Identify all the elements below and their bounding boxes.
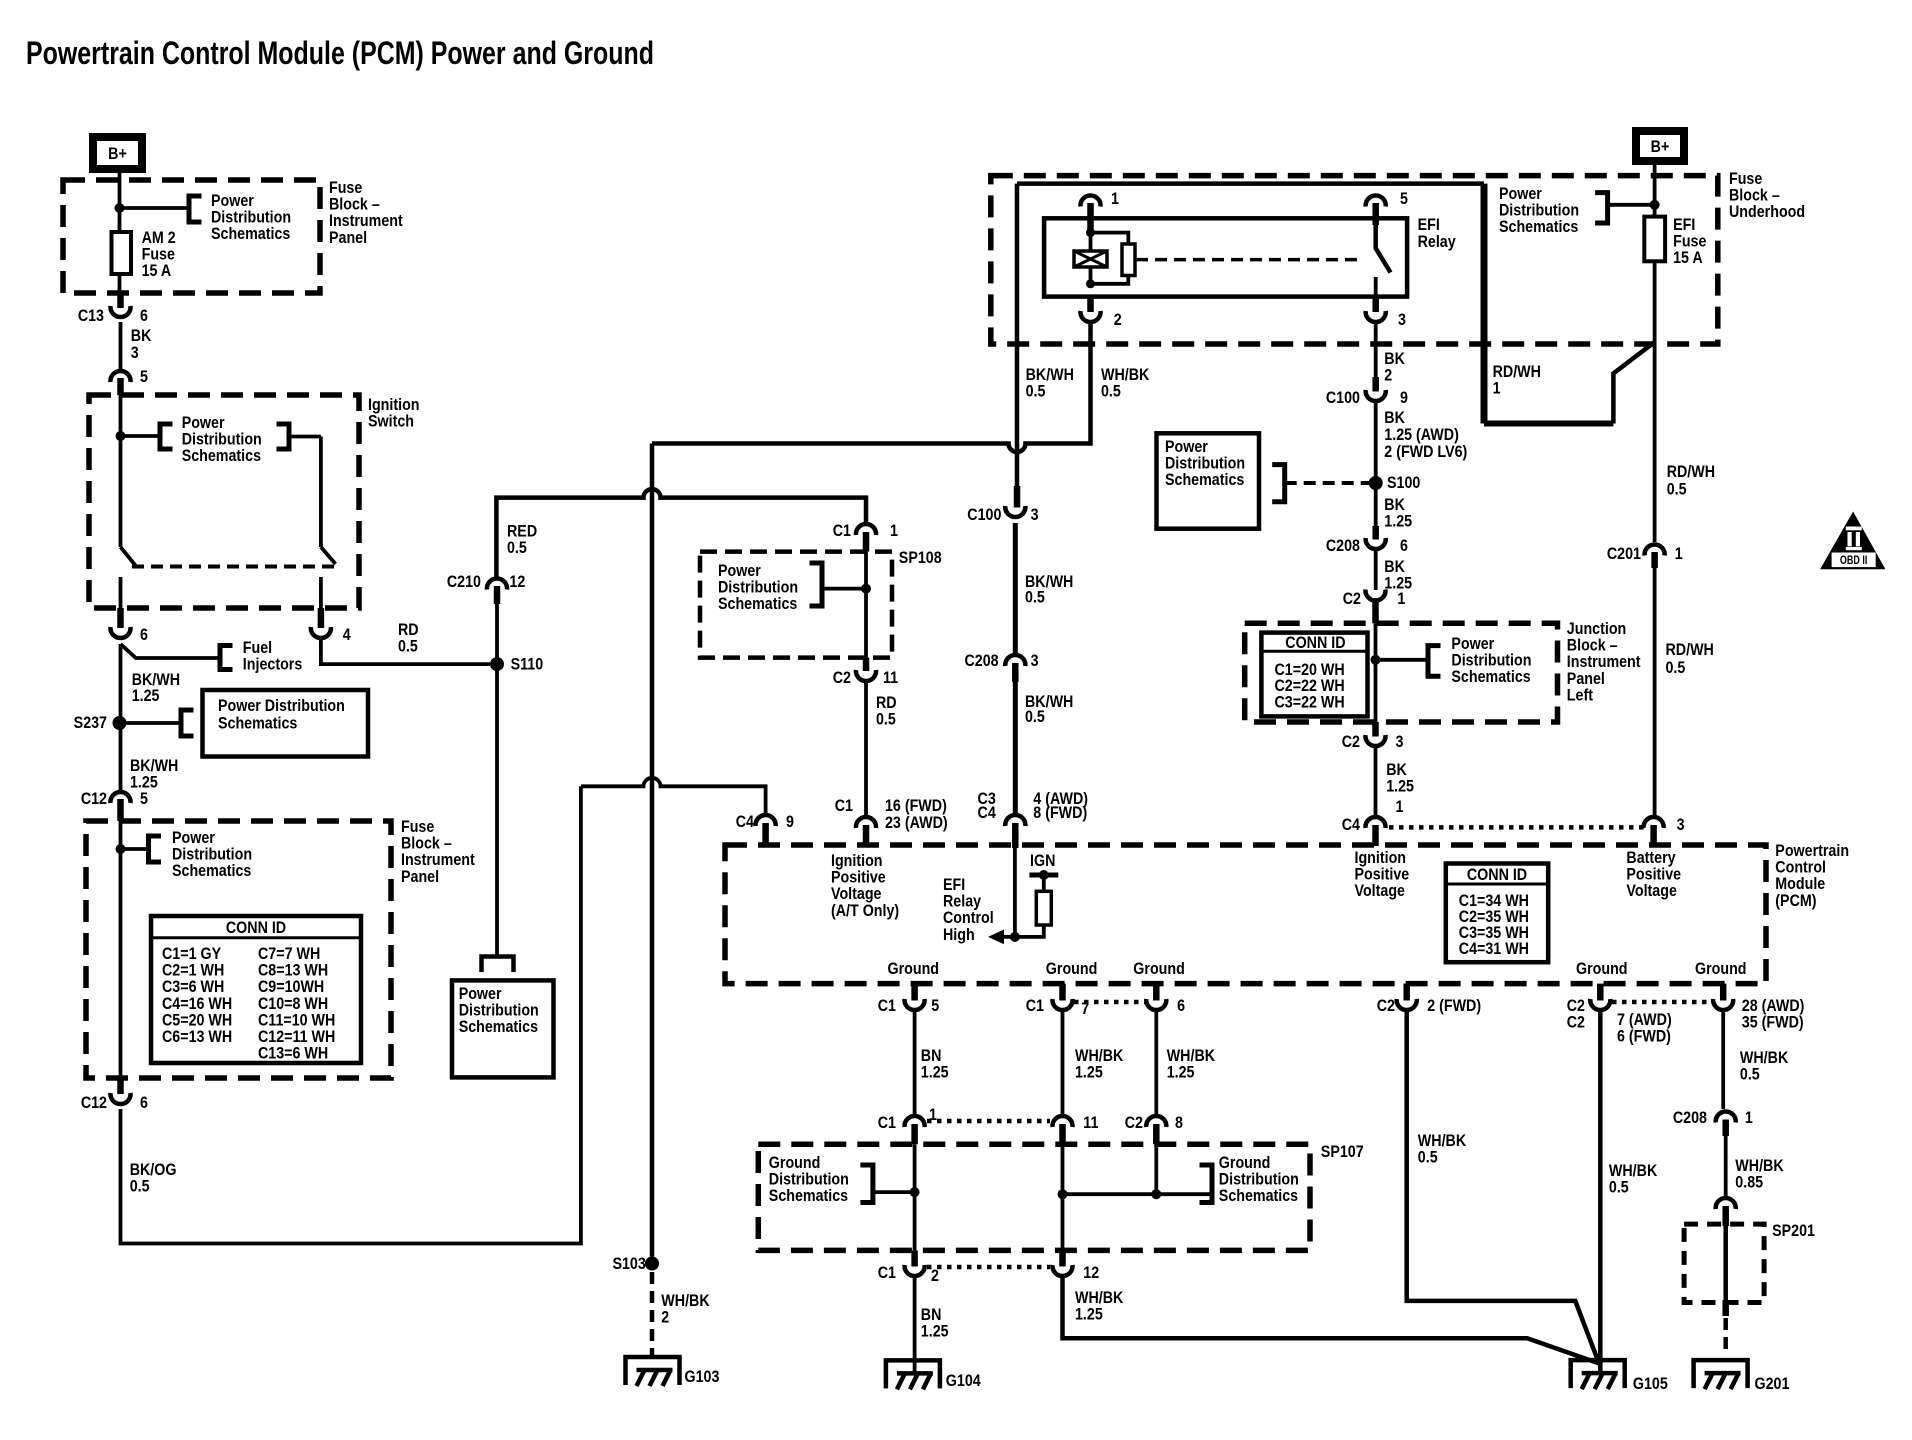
svg-text:0.5: 0.5 [507, 539, 527, 557]
svg-text:S237: S237 [74, 714, 108, 732]
svg-text:11: 11 [1083, 1114, 1098, 1132]
svg-text:0.5: 0.5 [398, 638, 418, 656]
svg-text:C13=6 WH: C13=6 WH [258, 1045, 328, 1063]
svg-text:0.5: 0.5 [1418, 1148, 1438, 1166]
svg-text:8 (FWD): 8 (FWD) [1033, 804, 1087, 822]
svg-text:C2: C2 [1567, 1013, 1585, 1031]
svg-text:5: 5 [931, 997, 939, 1015]
svg-text:Schematics: Schematics [769, 1187, 849, 1205]
svg-text:C208: C208 [1326, 537, 1360, 555]
svg-text:Schematics: Schematics [1219, 1187, 1299, 1205]
svg-text:Voltage: Voltage [1626, 882, 1677, 900]
svg-text:RD: RD [398, 621, 419, 639]
svg-text:3: 3 [1398, 311, 1406, 329]
svg-text:1.25: 1.25 [921, 1322, 949, 1340]
svg-text:C1: C1 [878, 997, 896, 1015]
svg-text:9: 9 [1400, 389, 1408, 407]
svg-text:SP107: SP107 [1321, 1143, 1364, 1161]
svg-text:5: 5 [140, 368, 148, 386]
svg-text:B+: B+ [108, 145, 127, 163]
svg-text:CONN ID: CONN ID [1467, 866, 1527, 884]
svg-text:Schematics: Schematics [1165, 471, 1245, 489]
svg-text:C4: C4 [978, 804, 996, 822]
svg-text:2: 2 [1114, 311, 1122, 329]
svg-text:11: 11 [883, 669, 898, 687]
svg-text:(A/T Only): (A/T Only) [831, 902, 899, 920]
svg-text:C12: C12 [81, 790, 107, 808]
svg-text:0.5: 0.5 [1025, 588, 1045, 606]
svg-text:C4: C4 [1342, 816, 1360, 834]
svg-text:6: 6 [140, 626, 148, 644]
svg-text:Schematics: Schematics [211, 225, 291, 243]
svg-text:Schematics: Schematics [172, 862, 252, 880]
svg-text:C100: C100 [967, 506, 1001, 524]
svg-text:RD/WH: RD/WH [1667, 463, 1715, 481]
svg-text:2 (FWD): 2 (FWD) [1427, 997, 1481, 1015]
svg-text:Voltage: Voltage [1355, 882, 1406, 900]
svg-text:Relay: Relay [1418, 233, 1456, 251]
svg-text:1: 1 [1493, 379, 1501, 397]
svg-text:5: 5 [140, 790, 148, 808]
svg-text:0.5: 0.5 [1666, 659, 1686, 677]
svg-text:C1: C1 [878, 1114, 896, 1132]
svg-text:12: 12 [509, 573, 525, 591]
svg-text:G105: G105 [1633, 1375, 1668, 1393]
svg-text:1.25: 1.25 [1075, 1063, 1103, 1081]
svg-text:C6=13 WH: C6=13 WH [162, 1028, 232, 1046]
svg-text:23 (AWD): 23 (AWD) [885, 814, 948, 832]
svg-text:C210: C210 [447, 573, 481, 591]
svg-text:C100: C100 [1326, 389, 1360, 407]
svg-text:1: 1 [1397, 590, 1405, 608]
svg-text:S103: S103 [612, 1255, 646, 1273]
svg-text:SP108: SP108 [899, 549, 942, 567]
svg-text:1.25: 1.25 [1384, 512, 1412, 530]
svg-text:0.5: 0.5 [876, 710, 896, 728]
svg-text:Schematics: Schematics [218, 714, 298, 732]
svg-text:SP201: SP201 [1772, 1222, 1815, 1240]
svg-text:0.5: 0.5 [1609, 1178, 1629, 1196]
svg-text:12: 12 [1083, 1264, 1099, 1282]
svg-text:Power Distribution: Power Distribution [218, 697, 345, 715]
svg-text:16 (FWD): 16 (FWD) [885, 797, 947, 815]
svg-text:C4: C4 [736, 813, 754, 831]
svg-text:2: 2 [1384, 366, 1392, 384]
svg-text:2 (FWD LV6): 2 (FWD LV6) [1384, 443, 1467, 461]
svg-text:1: 1 [1111, 190, 1119, 208]
svg-text:0.5: 0.5 [1025, 708, 1045, 726]
svg-text:C2: C2 [1125, 1114, 1143, 1132]
svg-text:IGN: IGN [1030, 852, 1055, 870]
svg-text:4: 4 [343, 626, 351, 644]
svg-text:Underhood: Underhood [1729, 203, 1805, 221]
svg-text:G103: G103 [685, 1368, 720, 1386]
svg-text:Powertrain Control Module (PCM: Powertrain Control Module (PCM) Power an… [26, 36, 654, 72]
svg-text:15 A: 15 A [142, 262, 172, 280]
svg-text:0.5: 0.5 [1101, 382, 1121, 400]
svg-text:1.25 (AWD): 1.25 (AWD) [1384, 426, 1459, 444]
svg-text:3: 3 [1396, 733, 1404, 751]
svg-text:(PCM): (PCM) [1775, 892, 1816, 910]
svg-text:6: 6 [140, 307, 148, 325]
svg-text:Schematics: Schematics [718, 595, 798, 613]
svg-text:C201: C201 [1607, 545, 1641, 563]
svg-text:0.5: 0.5 [1740, 1065, 1760, 1083]
svg-text:Schematics: Schematics [1451, 668, 1531, 686]
svg-text:5: 5 [1400, 190, 1408, 208]
svg-text:C2: C2 [833, 669, 851, 687]
svg-text:8: 8 [1175, 1114, 1183, 1132]
svg-text:Schematics: Schematics [182, 447, 262, 465]
svg-text:C12: C12 [81, 1094, 107, 1112]
svg-text:1.25: 1.25 [132, 687, 160, 705]
svg-text:C2: C2 [1377, 997, 1395, 1015]
svg-text:Ground: Ground [1576, 960, 1628, 978]
svg-text:1: 1 [1745, 1109, 1753, 1127]
svg-text:Ground: Ground [1695, 960, 1747, 978]
svg-text:CONN ID: CONN ID [1285, 634, 1345, 652]
svg-text:C1: C1 [833, 522, 851, 540]
svg-text:EFI: EFI [1418, 216, 1440, 234]
svg-text:6: 6 [1400, 537, 1408, 555]
svg-text:CONN ID: CONN ID [226, 919, 286, 937]
svg-text:Schematics: Schematics [459, 1018, 539, 1036]
svg-text:Ground: Ground [1046, 960, 1098, 978]
svg-text:0.5: 0.5 [130, 1177, 150, 1195]
svg-text:2: 2 [661, 1308, 669, 1326]
svg-text:1: 1 [890, 522, 898, 540]
svg-text:Schematics: Schematics [1499, 218, 1579, 236]
svg-text:Switch: Switch [368, 413, 414, 431]
svg-text:B+: B+ [1651, 138, 1670, 156]
svg-text:Panel: Panel [401, 868, 439, 886]
svg-text:C1: C1 [835, 797, 853, 815]
svg-text:C208: C208 [964, 652, 998, 670]
svg-text:0.85: 0.85 [1735, 1173, 1763, 1191]
svg-text:BK: BK [131, 327, 152, 345]
svg-text:6 (FWD): 6 (FWD) [1617, 1027, 1671, 1045]
svg-text:Ground: Ground [888, 960, 940, 978]
svg-text:35 (FWD): 35 (FWD) [1742, 1013, 1804, 1031]
svg-text:1.25: 1.25 [1386, 777, 1414, 795]
svg-text:1: 1 [1396, 798, 1404, 816]
svg-text:Panel: Panel [329, 229, 367, 247]
svg-text:RD/WH: RD/WH [1666, 641, 1714, 659]
svg-text:1.25: 1.25 [1075, 1305, 1103, 1323]
svg-text:6: 6 [1177, 997, 1185, 1015]
svg-text:2: 2 [931, 1267, 939, 1285]
svg-text:S100: S100 [1387, 474, 1421, 492]
svg-text:Injectors: Injectors [243, 656, 303, 674]
svg-text:C3=22 WH: C3=22 WH [1275, 693, 1345, 711]
svg-text:G104: G104 [946, 1372, 981, 1390]
svg-text:C1: C1 [1026, 997, 1044, 1015]
svg-text:S110: S110 [511, 655, 544, 673]
svg-text:1: 1 [1675, 545, 1683, 563]
svg-text:3: 3 [1677, 816, 1685, 834]
svg-text:3: 3 [1031, 652, 1039, 670]
svg-text:High: High [943, 926, 975, 944]
svg-text:15 A: 15 A [1673, 249, 1703, 267]
svg-text:C2: C2 [1342, 733, 1360, 751]
svg-text:0.5: 0.5 [1026, 382, 1046, 400]
svg-text:BK: BK [1384, 409, 1405, 427]
svg-text:9: 9 [786, 813, 794, 831]
svg-text:C2: C2 [1343, 590, 1361, 608]
svg-text:1.25: 1.25 [921, 1063, 949, 1081]
svg-text:C13: C13 [78, 307, 104, 325]
svg-text:OBD II: OBD II [1840, 554, 1868, 568]
svg-text:C4=31 WH: C4=31 WH [1459, 940, 1529, 958]
svg-text:C208: C208 [1673, 1109, 1707, 1127]
svg-text:C1: C1 [878, 1264, 896, 1282]
svg-text:Ground: Ground [1133, 960, 1185, 978]
svg-text:Left: Left [1567, 686, 1594, 704]
svg-text:1.25: 1.25 [1167, 1063, 1195, 1081]
svg-text:6: 6 [140, 1094, 148, 1112]
svg-text:3: 3 [131, 344, 139, 362]
svg-text:3: 3 [1031, 506, 1039, 524]
svg-text:0.5: 0.5 [1667, 480, 1687, 498]
svg-text:G201: G201 [1755, 1375, 1790, 1393]
